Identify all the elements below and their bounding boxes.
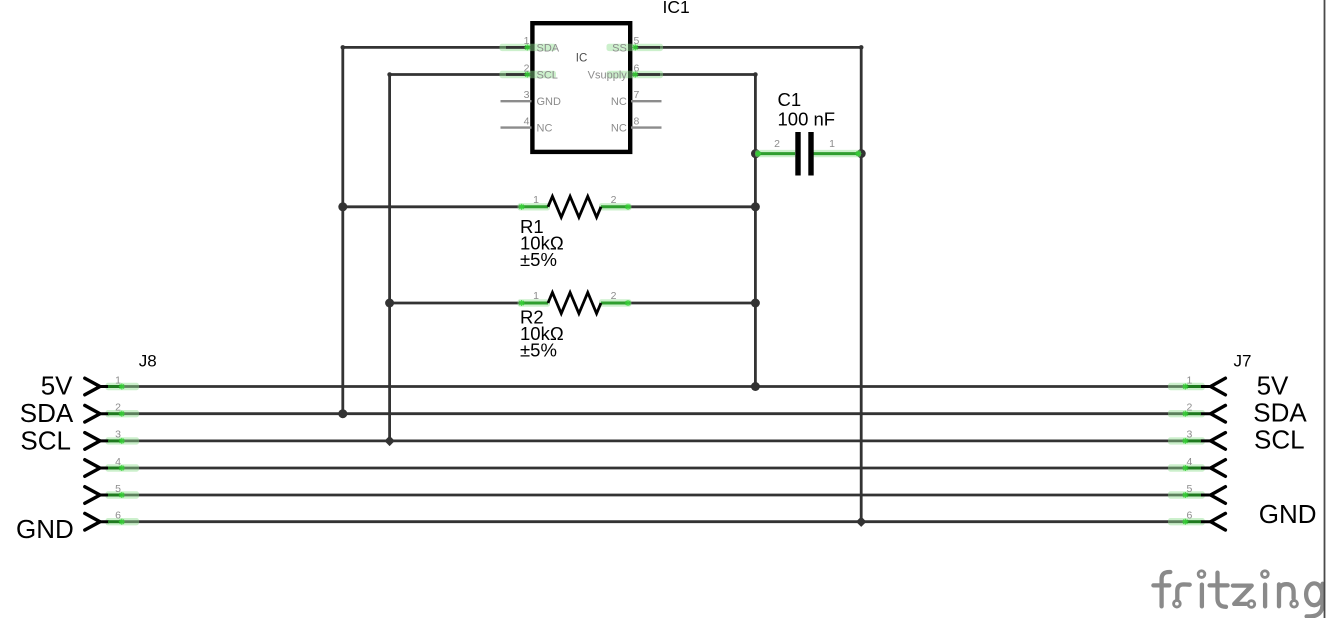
R2 zigzag body — [548, 293, 601, 314]
svg-text:4: 4 — [115, 456, 121, 468]
R1 zigzag body — [548, 196, 601, 217]
IC1 pin6 glow — [607, 71, 664, 78]
svg-text:1: 1 — [829, 138, 835, 150]
svg-text:4: 4 — [1187, 456, 1193, 468]
C1 lead glow pin1 (right) — [812, 150, 861, 157]
J7 pin 4 — [1168, 460, 1225, 477]
svg-text:SDA: SDA — [1253, 398, 1307, 428]
IC1 pin 1 lead (SDA) — [506, 46, 529, 49]
wire SS/GND vertical down to GND bus — [860, 47, 863, 521]
IC1 pin 5 lead (SS) — [634, 46, 661, 49]
svg-text:NC: NC — [611, 96, 627, 108]
IC1 pin 2 lead (SCL) — [506, 73, 529, 76]
svg-text:SS: SS — [612, 42, 627, 54]
logo letter g — [1306, 583, 1322, 605]
junction: R1 left on SDA vertical — [338, 202, 347, 211]
svg-text:5: 5 — [1187, 483, 1193, 495]
svg-text:3: 3 — [115, 429, 121, 441]
wire SCL vertical: IC1 pin2 down to SCL bus — [388, 75, 391, 441]
wire Vsupply horizontal: IC1 pin6 to vertical — [632, 73, 756, 76]
connector J7 — [1168, 352, 1317, 530]
wire SCL bus J8 pin3 to J7 pin3 — [122, 439, 1186, 442]
svg-text:NC: NC — [537, 123, 553, 135]
logo letter i (1st) — [1200, 585, 1204, 607]
IC1 pin 4 lead (NC) — [501, 126, 532, 128]
J8 pin 4 — [85, 460, 139, 477]
R1 terminal pin1 — [519, 204, 525, 210]
IC1 terminal pin5 — [632, 44, 638, 50]
svg-text:2: 2 — [774, 138, 780, 150]
IC IC1 — [500, 0, 690, 152]
svg-text:NC: NC — [611, 123, 627, 135]
junction: SCL bus (diamond) — [384, 436, 394, 446]
svg-text:GND: GND — [537, 96, 562, 108]
junction: R2 right on 5V vertical — [751, 299, 760, 308]
svg-text:1: 1 — [1187, 374, 1193, 386]
C1 plate right — [808, 132, 813, 176]
junction: R1 right on 5V vertical — [751, 202, 760, 211]
svg-text:7: 7 — [634, 89, 640, 101]
wire SDA bus J8 pin2 to J7 pin2 — [122, 412, 1186, 415]
R1 terminal pin2 — [625, 204, 631, 210]
junction: SDA bus — [338, 409, 347, 418]
fritzing logo — [1153, 571, 1322, 617]
svg-text:SCL: SCL — [537, 70, 558, 82]
R2 lead glow pin2 — [599, 299, 632, 306]
svg-text:1: 1 — [533, 194, 539, 206]
R2 pin 1 lead — [522, 302, 548, 305]
junction: R2 left on SCL vertical — [385, 299, 394, 308]
svg-text:6: 6 — [634, 62, 640, 74]
wire R1 right: R1 pin2 to 5V vertical — [628, 205, 755, 208]
wire R2 right: R2 pin2 to 5V vertical — [628, 302, 755, 305]
svg-text:1: 1 — [115, 374, 121, 386]
wire SCL horizontal: to IC1 pin 2 — [390, 73, 531, 76]
IC1 pin2 glow — [500, 71, 557, 78]
svg-text:2: 2 — [611, 290, 617, 302]
J8 pin 1 — [85, 378, 139, 395]
J8 pin 2 — [85, 405, 139, 422]
junction: GND bus (diamond) — [856, 517, 866, 527]
wire net4 bus J8 pin4 to J7 pin4 — [122, 467, 1186, 470]
logo letter n — [1279, 584, 1294, 606]
svg-text:6: 6 — [115, 510, 121, 522]
R1 pin 2 lead — [601, 205, 628, 208]
svg-text:GND: GND — [1259, 499, 1317, 529]
J7 pin 5 — [1168, 487, 1225, 504]
resistor R1 10kΩ — [518, 194, 632, 270]
wire SDA horizontal: to IC1 pin 1 — [343, 46, 531, 49]
svg-text:C1: C1 — [778, 89, 802, 110]
svg-text:5: 5 — [634, 35, 640, 47]
svg-text:2: 2 — [115, 402, 121, 414]
IC1 pin 8 lead (NC) — [631, 126, 662, 128]
wire net5 bus J8 pin5 to J7 pin5 — [122, 494, 1186, 497]
R1 lead glow pin2 — [599, 203, 632, 210]
IC1 terminal pin1 — [524, 44, 530, 50]
wire SDA vertical: IC1 pin1 down to SDA bus — [341, 47, 344, 413]
svg-text:5V: 5V — [41, 370, 73, 400]
C1 plate left — [795, 132, 800, 176]
resistor R2 10kΩ — [518, 290, 632, 360]
svg-text:5: 5 — [115, 483, 121, 495]
svg-text:3: 3 — [1187, 429, 1193, 441]
J8 pin 5 — [85, 487, 139, 504]
svg-text:SDA: SDA — [537, 42, 560, 54]
R2 terminal pin1 — [519, 300, 525, 306]
IC1 pin 7 lead (NC) — [631, 100, 662, 102]
svg-text:2: 2 — [1187, 402, 1193, 414]
svg-text:5V: 5V — [1257, 370, 1289, 400]
junction: C1 pin2 on 5V vertical — [751, 149, 760, 158]
wire GND bus J8 pin6 to J7 pin6 — [122, 520, 1186, 523]
C1 pin 2 lead — [757, 152, 795, 155]
J7 pin 3 — [1168, 433, 1225, 450]
wire Vsupply/5V vertical down to 5V bus — [754, 75, 757, 387]
R2 lead glow pin1 — [518, 299, 551, 306]
logo letter z — [1233, 586, 1252, 604]
IC1 pin1 glow — [500, 44, 557, 51]
R2 pin 2 lead — [601, 302, 628, 305]
bend point — [859, 45, 864, 50]
svg-text:J8: J8 — [139, 352, 157, 371]
logo letter i (2nd) — [1263, 585, 1267, 607]
svg-text:2: 2 — [611, 194, 617, 206]
IC1 terminal pin6 — [632, 72, 638, 78]
wire SS horizontal: IC1 pin5 to right vertical — [660, 46, 861, 49]
svg-text:1: 1 — [524, 35, 530, 47]
C1 lead glow pin2 (left) — [755, 150, 797, 157]
C1 terminal pin1 — [856, 151, 862, 157]
logo letter r — [1177, 584, 1189, 599]
IC1 pin 6 lead (Vsupply) — [634, 73, 661, 76]
wire R2 left: junction to R2 pin1 — [390, 302, 522, 305]
svg-text:SCL: SCL — [20, 425, 71, 455]
svg-text:100 nF: 100 nF — [778, 109, 836, 130]
J7 pin 6 — [1168, 513, 1225, 530]
R1 lead glow pin1 — [518, 203, 551, 210]
bend point — [341, 45, 346, 50]
svg-text:6: 6 — [1187, 510, 1193, 522]
connector J8 — [16, 352, 157, 544]
R1 pin 1 lead — [522, 205, 548, 208]
R2 terminal pin2 — [625, 300, 631, 306]
svg-text:GND: GND — [16, 514, 74, 544]
right edge border line — [1324, 0, 1326, 618]
IC1 pin5 glow — [607, 44, 664, 51]
C1 terminal pin2 — [755, 151, 761, 157]
svg-text:IC: IC — [576, 53, 588, 65]
bend point — [387, 72, 392, 77]
IC1 terminal pin2 — [524, 72, 530, 78]
svg-text:3: 3 — [524, 89, 530, 101]
svg-text:2: 2 — [524, 62, 530, 74]
junction: C1 pin1 on vertical — [857, 149, 866, 158]
svg-text:IC1: IC1 — [663, 0, 690, 17]
wire 5V bus J8 pin1 to J7 pin1 — [122, 385, 1186, 388]
junction: 5V bus — [751, 382, 760, 391]
svg-text:1: 1 — [533, 290, 539, 302]
logo letter t — [1218, 573, 1227, 607]
IC1 body — [532, 23, 630, 152]
J8 pin 6 — [85, 513, 139, 530]
capacitor C1 100nF — [755, 89, 862, 176]
logo letter f — [1162, 572, 1171, 606]
C1 pin 1 lead — [814, 152, 859, 155]
svg-text:J7: J7 — [1234, 352, 1252, 371]
J7 pin 2 — [1168, 405, 1225, 422]
bend point — [753, 72, 758, 77]
svg-text:4: 4 — [524, 115, 530, 127]
J8 pin 3 — [85, 433, 139, 450]
svg-text:8: 8 — [634, 115, 640, 127]
svg-text:SCL: SCL — [1254, 425, 1305, 455]
svg-text:±5%: ±5% — [520, 249, 557, 270]
svg-text:SDA: SDA — [20, 398, 74, 428]
IC1 pin 3 lead (GND) — [501, 100, 532, 102]
svg-text:±5%: ±5% — [520, 340, 557, 361]
J7 pin 1 — [1168, 378, 1225, 395]
wire R1 left: junction to R1 pin1 — [343, 205, 522, 208]
svg-text:Vsupply: Vsupply — [588, 70, 628, 82]
